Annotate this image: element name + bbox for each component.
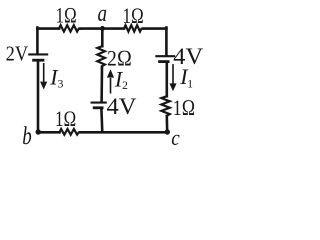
wire top-left segment [37, 27, 59, 30]
svg-text:1Ω: 1Ω [55, 106, 77, 131]
svg-text:a: a [97, 1, 107, 27]
svg-text:3: 3 [58, 79, 64, 91]
wire right middle [166, 63, 169, 96]
svg-text:2: 2 [122, 80, 128, 92]
svg-text:1Ω: 1Ω [122, 3, 144, 28]
svg-text:c: c [171, 125, 180, 150]
current arrow I1 (down) [169, 64, 176, 91]
svg-text:1Ω: 1Ω [55, 2, 77, 27]
resistor R3 2ohm middle zigzag [97, 46, 105, 68]
wire bottom-right segment [81, 131, 168, 134]
resistor R5 1ohm bottom zigzag [60, 129, 81, 135]
wire left lower [37, 61, 40, 132]
wire right upper [165, 28, 168, 56]
node b dot [36, 129, 41, 134]
resistor R4 1ohm right zigzag [161, 96, 169, 116]
svg-text:1: 1 [187, 79, 193, 91]
resistor R2 1ohm top-right zigzag [124, 25, 144, 31]
battery B1 2V left: short thick plate [32, 59, 44, 62]
node a dot [100, 26, 105, 31]
svg-text:4V: 4V [107, 94, 137, 119]
current arrow I2 (up) [107, 69, 114, 93]
wire middle upper [101, 28, 104, 47]
wire top-right segment [144, 27, 167, 30]
battery B2 4V middle: short thick plate [93, 106, 104, 109]
node c dot [165, 129, 170, 134]
battery B2 4V middle: long plate [91, 102, 107, 104]
svg-text:b: b [22, 123, 32, 150]
svg-text:1Ω: 1Ω [173, 95, 196, 120]
wire bottom-left segment [38, 131, 60, 134]
svg-text:2V: 2V [6, 42, 29, 66]
battery B3 4V right: long plate [155, 55, 175, 57]
wire top-middle segment [81, 27, 125, 30]
wire middle mid [100, 68, 103, 103]
battery B3 4V right: short thick plate [158, 60, 169, 63]
wire right lower [166, 116, 169, 132]
resistor R1 1ohm top-left zigzag [59, 25, 81, 31]
current arrow I3 (down) [40, 63, 47, 90]
svg-text:4V: 4V [173, 44, 203, 69]
battery B1 2V left: long plate [28, 53, 48, 55]
wire middle lower [100, 109, 104, 133]
wire left upper [36, 28, 39, 54]
